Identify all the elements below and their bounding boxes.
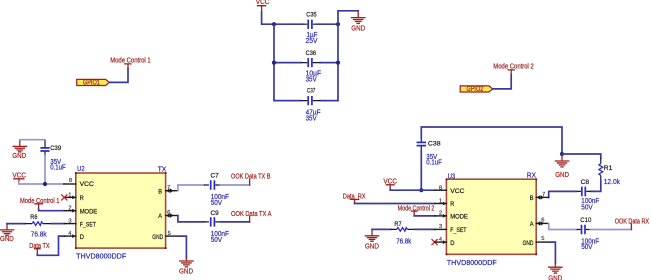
port GPIO2 (460, 86, 492, 93)
ground GND (R6 left) (0, 224, 14, 244)
svg-text:THVD8000DDF: THVD8000DDF (76, 253, 126, 260)
wire Data TX to pin 4 (37, 236, 64, 255)
svg-text:C39: C39 (50, 145, 61, 152)
wire pin A to C9 (178, 216, 204, 222)
svg-text:C7: C7 (211, 173, 220, 180)
wire VCC to pin 8 (19, 182, 64, 185)
node junction left rail C36 (272, 61, 276, 65)
wire VCC to pin 8 (U3) (390, 189, 435, 192)
net label Data_RX (343, 193, 366, 203)
svg-text:GND: GND (523, 240, 534, 247)
svg-text:C35: C35 (306, 12, 317, 19)
svg-text:VCC: VCC (80, 181, 95, 188)
svg-text:2: 2 (439, 211, 442, 217)
capacitor C35 (304, 12, 318, 45)
wire left rail (273, 24, 275, 100)
svg-text:VCC: VCC (450, 188, 465, 195)
capacitor C8 (577, 179, 600, 212)
svg-text:76.8k: 76.8k (31, 232, 47, 239)
svg-text:R: R (80, 195, 84, 202)
ground GND (top right) (351, 11, 365, 33)
pin 8 VCC (U2) (64, 178, 95, 188)
wire Data_RX to pin 1 (U3) (355, 203, 435, 205)
svg-text:GND: GND (351, 25, 365, 32)
svg-text:R6: R6 (30, 214, 38, 221)
wire GND to R6 (7, 223, 25, 225)
pin 3 F_SET (U2) (64, 218, 96, 228)
node junction GND mid (560, 152, 564, 156)
net label OOK Data RX (615, 219, 650, 230)
svg-text:C38: C38 (428, 140, 441, 147)
svg-text:5: 5 (541, 236, 544, 242)
svg-text:GND: GND (555, 172, 569, 179)
IC U3 body (446, 178, 538, 255)
svg-text:6: 6 (541, 217, 544, 223)
svg-text:C37: C37 (307, 88, 316, 95)
net label OOK Data TX A (231, 211, 272, 222)
svg-text:C8: C8 (581, 179, 590, 186)
resistor R1 (599, 158, 621, 186)
svg-text:76.8k: 76.8k (396, 239, 411, 246)
wire pin 5 to ground (178, 236, 187, 258)
wire right rail (338, 11, 358, 101)
svg-text:F_SET: F_SET (450, 227, 466, 234)
wire C10 to net label (light net) (590, 229, 631, 231)
svg-text:C9: C9 (211, 210, 220, 217)
capacitor C10 (577, 217, 600, 251)
svg-text:0.1uF: 0.1uF (50, 165, 65, 172)
net label OOK Data TX B (231, 174, 271, 185)
node junction C38/VCC (U3) (419, 188, 423, 192)
capacitor C9 (204, 210, 229, 244)
net label Mode Control 1 (U2) (20, 198, 59, 209)
pin 4 D (U2) (64, 231, 84, 241)
wire Mode Control 1 to pin 2 (39, 209, 65, 211)
svg-text:RX: RX (527, 173, 536, 180)
svg-text:THVD8000DDF: THVD8000DDF (447, 260, 497, 267)
svg-text:3: 3 (68, 218, 71, 224)
svg-text:7: 7 (542, 192, 545, 198)
wire GND to C39 (light net) (20, 139, 45, 141)
svg-text:D: D (80, 234, 85, 241)
pin 7 B (U3) (530, 192, 549, 202)
pin 7 B (U2) (158, 185, 178, 195)
resistor R7 (391, 221, 416, 246)
pin 6 A (U2) (158, 210, 178, 220)
svg-text:GND: GND (179, 269, 193, 276)
svg-text:U2: U2 (77, 166, 85, 173)
svg-text:TX: TX (158, 166, 167, 173)
capacitor C7 (204, 173, 229, 207)
wire R7 to pin 3 (U3) (415, 228, 435, 230)
svg-text:OOK Data RX: OOK Data RX (615, 219, 650, 226)
power VCC (U2) (12, 173, 26, 182)
svg-text:8: 8 (69, 178, 72, 184)
wire pin B to C7 (light net) (178, 185, 204, 191)
svg-text:U3: U3 (448, 173, 456, 180)
svg-text:0.1uF: 0.1uF (426, 160, 442, 167)
svg-text:B: B (158, 188, 162, 195)
resistor R6 (25, 214, 52, 239)
svg-text:50V: 50V (211, 200, 223, 207)
wire R6 to pin 3 (52, 223, 65, 225)
svg-text:MODE: MODE (80, 208, 98, 215)
net label Mode Control 2 (top) (493, 63, 534, 74)
svg-text:D: D (450, 240, 455, 247)
port GPIO1 (77, 79, 110, 86)
wire pin 5 to ground (U3) (549, 242, 556, 263)
svg-text:7: 7 (167, 185, 170, 191)
svg-text:GND: GND (12, 153, 26, 160)
capacitor C39 (40, 140, 65, 171)
pin 5 GND (U3) (523, 236, 549, 247)
svg-text:2: 2 (68, 206, 71, 212)
wire Mode Control 2 to pin 2 (U3) (414, 215, 435, 217)
svg-text:8: 8 (439, 185, 442, 191)
svg-text:GPIO2: GPIO2 (466, 86, 483, 93)
svg-text:1: 1 (439, 198, 442, 204)
wire C35 to right rail (317, 23, 338, 25)
wire C8 to pin B (U3) (549, 191, 577, 197)
wire pin A to C10 (light net) (549, 223, 577, 229)
svg-text:C36: C36 (306, 50, 317, 57)
svg-text:12.0k: 12.0k (604, 179, 621, 186)
net label Mode Control 1 (top) (110, 57, 151, 69)
svg-text:50V: 50V (581, 205, 593, 212)
pin 4 D (U3) (435, 237, 455, 247)
svg-text:B: B (530, 195, 534, 202)
pin 1 R (U2) (64, 192, 84, 202)
ground GND (R7 left) (365, 229, 379, 250)
svg-text:GND: GND (548, 275, 562, 280)
node junction C39/VCC (43, 182, 47, 186)
svg-text:GND: GND (152, 234, 163, 241)
wire C38 top rail (421, 127, 562, 154)
net label Data TX (29, 243, 50, 255)
svg-text:35V: 35V (306, 76, 317, 83)
pin 6 A (U3) (530, 217, 549, 228)
svg-text:25V: 25V (306, 38, 318, 45)
capacitor C36 (274, 50, 338, 83)
wire GPIO1 to net label (109, 69, 128, 83)
pin 8 VCC (U3) (435, 185, 465, 195)
svg-text:OOK Data TX B: OOK Data TX B (231, 174, 271, 181)
svg-text:Mode Control 1: Mode Control 1 (110, 57, 151, 64)
pin 2 MODE (U2) (64, 206, 97, 216)
wire R1 to C8 row (591, 181, 601, 192)
svg-text:50V: 50V (581, 244, 593, 251)
ground GND (mid right) (555, 154, 569, 179)
svg-text:4: 4 (439, 237, 442, 243)
pin 1 R (U3) (435, 198, 455, 208)
no-ERC marker X (U2 pin 1) (61, 194, 67, 200)
power VCC (U3) (383, 178, 397, 189)
svg-text:Mode Control 2: Mode Control 2 (493, 63, 534, 70)
wire junction to R1 (562, 154, 601, 158)
capacitor C38 (417, 138, 442, 167)
svg-text:MODE: MODE (450, 214, 468, 221)
svg-text:GND: GND (365, 243, 379, 250)
svg-text:OOK Data TX A: OOK Data TX A (231, 211, 272, 218)
node junction left rail top (272, 22, 276, 26)
svg-text:4: 4 (68, 231, 71, 237)
power VCC (top) (256, 0, 270, 12)
wire C9 to net label (220, 221, 249, 223)
ground GND (C39 top left) (12, 140, 26, 160)
wire GND to R7 (372, 228, 391, 230)
wire C38 bottom to VCC row (420, 151, 422, 191)
svg-text:F_SET: F_SET (80, 222, 96, 229)
no-ERC marker X (U3 pin 4) (432, 239, 438, 245)
wire C7 to net label (light net) (220, 184, 249, 186)
pin 5 GND (U2) (152, 231, 178, 241)
svg-text:R: R (450, 201, 454, 208)
pin 3 F_SET (U3) (435, 224, 467, 234)
node junction right rail top (336, 22, 340, 26)
ground GND (U3 bottom) (548, 263, 562, 280)
svg-text:C10: C10 (580, 217, 591, 224)
wire VCC to C35 row (262, 12, 304, 24)
svg-text:R1: R1 (604, 165, 613, 172)
svg-text:GND: GND (0, 236, 14, 243)
wire GPIO2 to net label (493, 75, 512, 89)
node junction right rail C36 (336, 61, 340, 65)
svg-text:6: 6 (167, 210, 170, 216)
svg-text:1: 1 (68, 192, 71, 198)
svg-text:GPIO1: GPIO1 (83, 80, 100, 87)
IC U2 body (75, 172, 167, 249)
svg-text:5: 5 (168, 231, 171, 237)
pin 2 MODE (U3) (435, 211, 468, 221)
net label Mode Control 2 (U3) (398, 205, 435, 216)
svg-text:35V: 35V (306, 116, 317, 123)
capacitor C37 (274, 88, 338, 123)
svg-text:3: 3 (439, 224, 442, 230)
ground GND (U2 bottom) (179, 258, 193, 276)
wire C39 to VCC rail (44, 155, 46, 184)
svg-text:50V: 50V (211, 237, 223, 244)
